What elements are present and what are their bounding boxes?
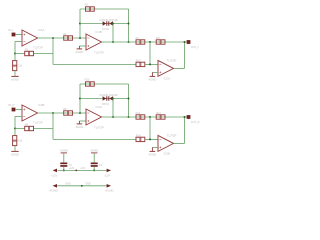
wire op-amp output to clipping stage [38,37,87,39]
wire feedback loop right vertical [128,9,130,42]
svg-text:TL072P: TL072P [33,45,43,49]
junction on op-amp output [52,112,54,114]
svg-text:R11: R11 [136,111,141,115]
svg-text:AGND: AGND [149,152,157,156]
svg-text:IC2A: IC2A [164,76,170,80]
svg-text:IN_R: IN_R [8,103,14,107]
svg-text:R7: R7 [136,36,140,40]
connector pad OUT_R [187,115,191,119]
wire op-amp output to clipping stage [38,112,87,114]
svg-text:C2: C2 [99,164,103,167]
wire resistor to output branch [34,128,54,130]
op-amp IC3A [86,109,102,125]
connector pad IN_R [12,108,16,112]
junction output stage input [149,41,151,43]
supply arrow AGND left [53,184,57,188]
wire op-amp + input to ground [152,146,158,148]
svg-text:D1 D2: D1 D2 [102,28,110,31]
wire stage-1 output down to mixer line [52,54,54,65]
connector pad IN_L [12,33,16,37]
svg-text:1N4148 1N4148: 1N4148 1N4148 [99,94,118,97]
junction diode rail left [79,98,81,100]
diodes D1 D2 1N4148 anti-parallel [103,21,107,25]
svg-text:GND: GND [65,182,71,185]
wire feedback loop left vertical [79,9,81,38]
wire op-amp + input to ground [79,120,86,122]
ground AGND at IC3B + input [151,147,153,151]
svg-text:-12V: -12V [104,173,110,177]
wire diode feedback rail [80,98,129,100]
ground AGND below R3 [11,75,18,77]
resistor R6 [14,129,16,136]
svg-text:IC2B: IC2B [38,103,44,107]
ground AGND below R6 [11,150,18,152]
svg-text:TL072P: TL072P [167,59,177,63]
svg-text:R1: R1 [63,32,67,36]
ground AGND at IC2A + input [151,72,153,76]
resistor R10 [86,82,95,86]
node junction feedback IC1A [14,53,16,55]
resistor R2 [25,51,34,55]
svg-text:IN_L: IN_L [8,28,14,32]
supply arrow GND right [107,184,111,188]
wire diode rail down to output [112,98,114,100]
svg-text:AGND: AGND [105,189,113,193]
op-amp IC1A [22,30,38,46]
ground AGND at IC3A + input [78,121,80,124]
wire input pad to op-amp + [16,34,22,36]
svg-text:AGND: AGND [49,189,57,193]
op-amp IC2A [158,60,174,76]
supply arrow +12V [53,169,57,173]
resistor R3 [14,54,16,61]
svg-text:-12V: -12V [80,167,85,170]
wire top feedback rail [80,8,129,10]
wire capacitor C2 to supply rail [93,167,95,171]
svg-text:R5: R5 [85,2,89,6]
svg-text:AGND: AGND [60,149,68,153]
svg-text:TL072P: TL072P [33,120,43,124]
svg-text:AGND: AGND [11,152,19,156]
op-amp IC3B [158,135,174,151]
wire supply rail [58,169,107,171]
junction on op-amp output [52,37,54,39]
svg-text:TL072P: TL072P [94,126,104,130]
ground AGND at IC1B + input [78,46,80,49]
diodes D3 D4 1N4148 anti-parallel [103,96,107,100]
op-amp IC1B [86,34,102,50]
wire op-amp - input to feedback node [15,41,22,43]
wire ground to capacitor C1 [63,153,65,162]
svg-text:GND: GND [85,182,91,185]
resistor R11 [136,115,145,119]
resistor R1 [64,36,73,40]
wire feedback node to resistor [15,128,25,130]
resistor R12 [156,115,165,119]
svg-text:IC1A: IC1A [38,28,44,32]
wire capacitor C1 to supply rail [63,167,65,171]
svg-text:+12V: +12V [69,167,75,170]
wire top feedback rail [80,83,129,85]
svg-text:R9: R9 [156,36,160,40]
wire feedback loop left vertical [79,84,81,113]
connector pad OUT_L [187,40,191,44]
wire resistor to output branch [34,53,54,55]
wire input pad to op-amp + [16,109,22,111]
svg-text:OUT_L: OUT_L [191,45,200,49]
wire ground to capacitor C2 [93,153,95,162]
svg-text:10k: 10k [18,139,23,142]
wire op-amp output feedback up [174,142,185,144]
svg-text:D3 D4: D3 D4 [102,103,110,106]
svg-text:AGND: AGND [149,77,157,81]
svg-text:R12: R12 [156,111,161,115]
resistor R5 [86,7,95,11]
resistor R14 [136,137,145,141]
wire diode rail down to output [112,23,114,25]
wire junction down to op-amp - input [149,42,151,64]
wire ground tie [57,185,106,187]
svg-text:R4: R4 [25,123,29,127]
wire stage-1 output down to mixer line [52,129,54,140]
svg-text:AGND: AGND [76,50,84,54]
wire op-amp output feedback up [174,67,185,69]
node junction feedback IC2B [14,128,16,130]
resistor R4 [25,126,34,130]
wire op-amp + input to ground [152,71,158,73]
op-amp IC2B [22,105,38,121]
junction feedback loop left [79,112,81,114]
wire diode feedback rail [80,23,129,25]
junction ground tie [81,185,83,187]
svg-text:R10: R10 [85,77,90,81]
svg-text:TL072P: TL072P [94,51,104,55]
svg-text:R13: R13 [136,59,141,63]
resistor R7 [136,40,145,44]
wire junction down to op-amp - input [149,117,151,139]
svg-text:AGND: AGND [76,125,84,129]
junction output stage input [149,116,151,118]
resistor R13 [136,62,145,66]
resistor R8 [64,111,73,115]
wire op-amp + input to ground [79,45,86,47]
wire clipper output line [102,41,187,43]
svg-text:IC3A: IC3A [96,105,102,109]
svg-text:1N4148 1N4148: 1N4148 1N4148 [99,19,118,22]
wire op-amp - input to feedback node [15,116,22,118]
svg-text:+12V: +12V [51,173,58,177]
wire feedback node to resistor [15,53,25,55]
wire feedback loop right vertical [128,84,130,117]
svg-text:OUT_R: OUT_R [191,120,200,124]
junction C2 on rail [93,169,95,171]
junction diode rail left [79,23,81,25]
svg-text:R2: R2 [25,48,29,52]
svg-text:IC1B: IC1B [96,30,102,34]
junction C1 on rail [63,169,65,171]
svg-text:AGND: AGND [11,77,19,81]
svg-text:IC3B: IC3B [164,151,170,155]
svg-text:R8: R8 [63,107,67,111]
capacitor C1 (polarized) [60,163,67,165]
svg-text:R14: R14 [136,134,141,138]
svg-text:AGND: AGND [90,149,98,153]
junction feedback loop left [79,37,81,39]
resistor R9 [156,40,165,44]
svg-text:TL072P: TL072P [167,134,177,138]
capacitor C2 (polarized) [91,163,98,165]
wire clipper output line [102,116,187,118]
supply arrow -12V [107,169,111,173]
svg-text:10k: 10k [18,64,23,67]
